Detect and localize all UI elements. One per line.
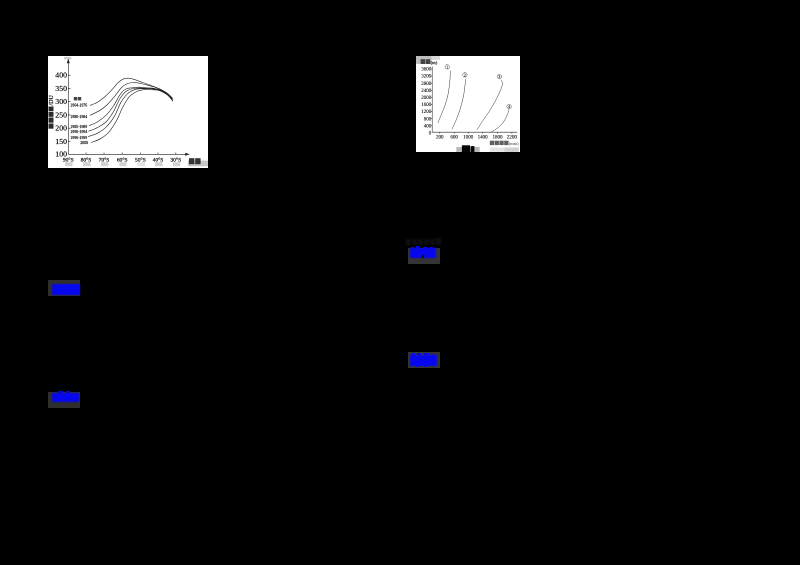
svg-text:1000: 1000 bbox=[463, 136, 474, 141]
x-axis title blobs (年降水量) bbox=[490, 141, 509, 145]
figure 2: altitude vs annual precipitation chart bbox=[416, 56, 520, 152]
x-axis tick labels bbox=[63, 157, 181, 164]
svg-text:1200: 1200 bbox=[421, 110, 432, 115]
y-axis title blobs (CJK 臭氧总量) bbox=[49, 107, 54, 129]
svg-text:1990-1994: 1990-1994 bbox=[70, 130, 87, 134]
caption 图2 gray highlight bbox=[456, 147, 479, 152]
svg-text:80°S: 80°S bbox=[81, 157, 92, 164]
svg-text:60°S: 60°S bbox=[117, 157, 128, 164]
blue highlight box 2 (left column) bbox=[48, 392, 80, 408]
curve 3 bbox=[477, 80, 503, 131]
svg-text:1600: 1600 bbox=[421, 103, 432, 108]
y-axis tick labels bbox=[421, 68, 432, 137]
figure 1 white background bbox=[48, 56, 208, 168]
legend year-range labels bbox=[70, 104, 88, 145]
svg-text:400: 400 bbox=[55, 71, 67, 80]
x-axis title blobs (CJK 纬度) bbox=[189, 158, 201, 164]
svg-text:3: 3 bbox=[498, 74, 500, 79]
svg-text:90°S: 90°S bbox=[63, 157, 74, 164]
curve 1985-1989 bbox=[89, 87, 173, 126]
curves bbox=[88, 78, 173, 142]
svg-text:1996-1999: 1996-1999 bbox=[70, 136, 87, 140]
faint answer-row text above blue box 3 bbox=[406, 238, 446, 245]
svg-text:150: 150 bbox=[55, 137, 67, 146]
x-axis bbox=[432, 132, 517, 133]
y-axis title blobs (高度) bbox=[421, 59, 431, 64]
svg-text:1980-1984: 1980-1984 bbox=[70, 115, 87, 119]
gray highlight marks under x labels bbox=[65, 162, 180, 166]
y-axis bbox=[68, 62, 70, 155]
svg-text:200: 200 bbox=[55, 124, 67, 133]
svg-text:40°S: 40°S bbox=[153, 157, 164, 164]
svg-text:600: 600 bbox=[450, 136, 458, 141]
x-axis arrow bbox=[185, 153, 190, 156]
svg-text:/DU: /DU bbox=[49, 95, 55, 106]
svg-text:30°S: 30°S bbox=[170, 157, 181, 164]
svg-text:800: 800 bbox=[424, 117, 432, 122]
x-axis bbox=[68, 153, 187, 155]
figure 1: ozone total vs latitude chart bbox=[48, 56, 208, 168]
y-axis tick labels bbox=[55, 71, 67, 159]
blue highlight box 4 (right column) bbox=[408, 352, 440, 368]
svg-text:1400: 1400 bbox=[478, 136, 489, 141]
svg-text:50°S: 50°S bbox=[135, 157, 146, 164]
svg-text:1964-1976: 1964-1976 bbox=[70, 104, 87, 108]
y-axis bbox=[431, 67, 433, 133]
legend label 年份 blobs bbox=[74, 97, 81, 100]
svg-text:250: 250 bbox=[55, 110, 67, 119]
svg-text:(m): (m) bbox=[431, 60, 438, 65]
curve 2 bbox=[452, 79, 465, 129]
svg-text:2800: 2800 bbox=[421, 82, 432, 87]
caption 图 glyph blob bbox=[462, 145, 470, 152]
figure 2 white background bbox=[416, 56, 520, 152]
curve 2000 bbox=[91, 89, 173, 142]
curve 1996-1999 bbox=[88, 89, 173, 137]
svg-text:1800: 1800 bbox=[493, 136, 504, 141]
y-axis arrow bbox=[67, 59, 70, 64]
circled label 3 bbox=[497, 74, 501, 79]
caption 2 glyph blob bbox=[471, 146, 475, 152]
curve 1 bbox=[438, 71, 450, 123]
curve 1980-1984 bbox=[90, 82, 173, 115]
svg-text:2000: 2000 bbox=[421, 96, 432, 101]
circled label 2 bbox=[463, 72, 467, 77]
svg-text:350: 350 bbox=[55, 84, 67, 93]
circled label 4 bbox=[507, 104, 511, 109]
svg-text:2400: 2400 bbox=[421, 89, 432, 94]
svg-text:200: 200 bbox=[436, 136, 444, 141]
svg-text:400: 400 bbox=[424, 124, 432, 129]
svg-text:2: 2 bbox=[464, 72, 466, 77]
svg-text:2000: 2000 bbox=[80, 141, 88, 145]
blue highlight box 3 (right column) bbox=[408, 248, 440, 264]
svg-text:3600: 3600 bbox=[421, 68, 432, 73]
svg-text:300: 300 bbox=[55, 97, 67, 106]
x-axis tick labels bbox=[436, 136, 517, 141]
svg-text:2200: 2200 bbox=[507, 136, 518, 141]
curve 4 bbox=[490, 109, 509, 132]
gray highlight bottom-right bbox=[490, 148, 504, 152]
svg-text:3200: 3200 bbox=[421, 75, 432, 80]
gray highlight top-left corner bbox=[416, 56, 432, 64]
svg-text:1985-1989: 1985-1989 bbox=[70, 125, 87, 129]
svg-text:1: 1 bbox=[446, 64, 448, 69]
svg-text:70°S: 70°S bbox=[99, 157, 110, 164]
svg-text:(mm): (mm) bbox=[509, 141, 519, 146]
circled label 1 bbox=[445, 64, 449, 69]
svg-text:4: 4 bbox=[508, 104, 510, 109]
gray highlight behind x-axis title bbox=[188, 161, 209, 167]
curve 1964-1976 bbox=[90, 78, 173, 105]
gray highlight mark top of y-axis bbox=[64, 57, 71, 60]
blue highlight box 1 (left column) bbox=[48, 280, 80, 296]
curve 1990-1994 bbox=[89, 88, 173, 131]
